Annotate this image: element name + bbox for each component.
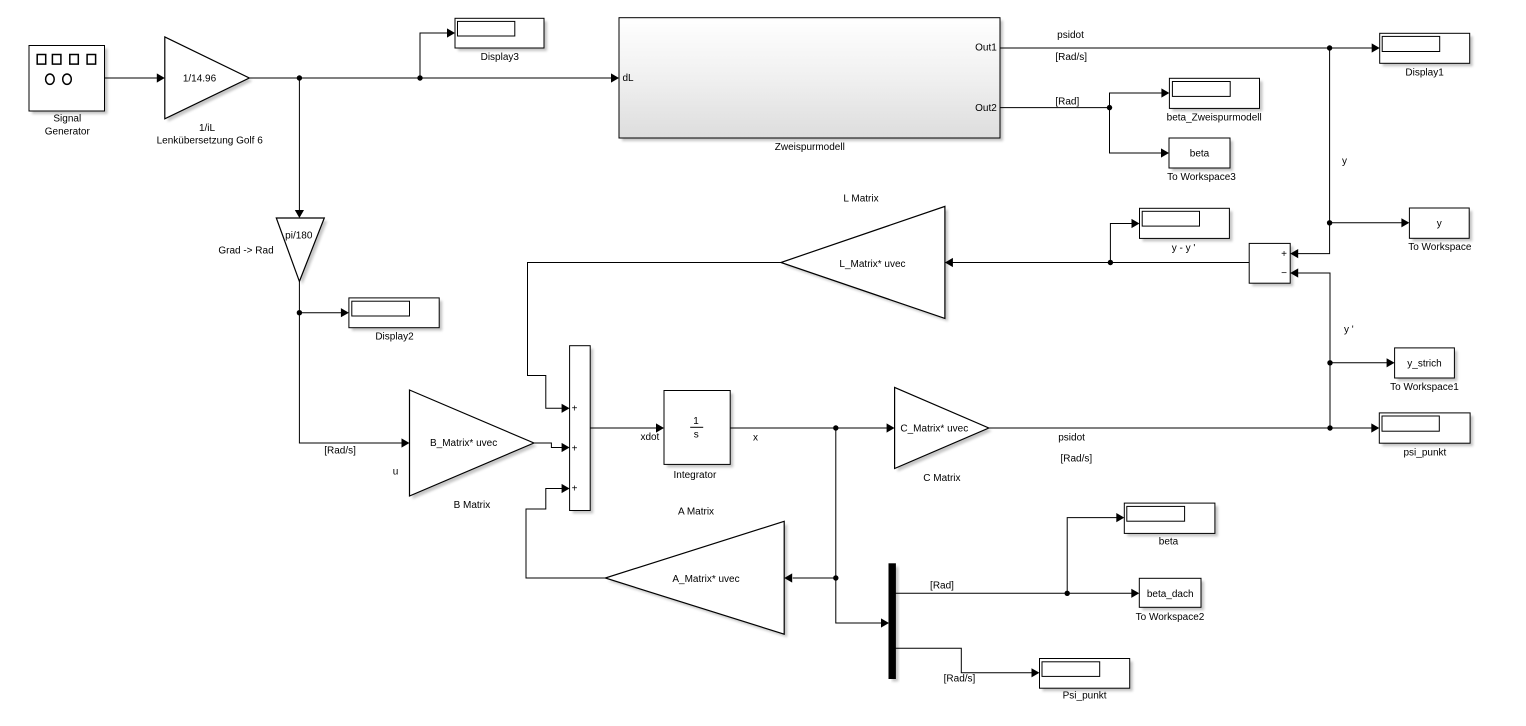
wire pi/180 down to B Matrix input: [299, 281, 409, 447]
gain C Matrix (C_Matrix* uvec): [895, 387, 992, 484]
svg-text:Display3: Display3: [481, 52, 520, 63]
svg-text:psidot: psidot: [1058, 433, 1085, 444]
gain A Matrix (A_Matrix* uvec): [605, 507, 787, 638]
sum block (xdot = Ax + Bu + L(y-y')): [570, 346, 594, 514]
svg-text:To Workspace3: To Workspace3: [1167, 172, 1236, 183]
svg-text:pi/180: pi/180: [285, 231, 313, 242]
svg-text:beta_dach: beta_dach: [1147, 589, 1194, 600]
sink block To Workspace2 (beta_dach): [1136, 578, 1205, 623]
svg-text:Zweispurmodell: Zweispurmodell: [775, 142, 845, 153]
svg-text:C_Matrix* uvec: C_Matrix* uvec: [900, 423, 968, 434]
svg-text:[Rad]: [Rad]: [930, 581, 954, 592]
svg-text:[Rad/s]: [Rad/s]: [1060, 454, 1092, 465]
display block y - y': [1140, 208, 1233, 254]
svg-text:dL: dL: [623, 73, 635, 84]
svg-text:[Rad/s]: [Rad/s]: [1055, 52, 1087, 63]
sink block To Workspace1 (y_strich): [1390, 348, 1459, 393]
svg-text:beta: beta: [1159, 537, 1179, 548]
svg-text:Display2: Display2: [375, 332, 414, 343]
wire L Matrix output to sum input 1: [528, 263, 781, 413]
junction at y-y' display branch: [1108, 260, 1113, 265]
wire Integrator x output to C Matrix: [730, 423, 894, 432]
svg-text:Out2: Out2: [975, 103, 997, 114]
display block Display3: [455, 18, 547, 63]
subsystem block Zweispurmodell: [619, 18, 1003, 153]
svg-text:To Workspace2: To Workspace2: [1136, 612, 1205, 623]
svg-text:1: 1: [693, 416, 699, 427]
sum block (y minus y-strich): [1249, 243, 1293, 286]
svg-text:C Matrix: C Matrix: [923, 473, 960, 484]
label [Rad/s] (C Matrix output): [1060, 454, 1092, 465]
svg-text:L_Matrix* uvec: L_Matrix* uvec: [839, 259, 905, 270]
gain B Matrix (B_Matrix* uvec): [410, 390, 537, 511]
integrator block 1/s: [664, 391, 733, 481]
svg-text:psidot: psidot: [1057, 30, 1084, 41]
svg-text:To Workspace1: To Workspace1: [1390, 382, 1459, 393]
gain L Matrix (L_Matrix* uvec): [781, 194, 948, 322]
label [Rad] (demux output 1): [930, 581, 954, 592]
junction (branch to Display2): [297, 310, 302, 315]
svg-text:Out1: Out1: [975, 43, 997, 54]
svg-text:A Matrix: A Matrix: [678, 507, 714, 518]
svg-text:+: +: [572, 444, 578, 455]
label u (B Matrix input): [393, 467, 399, 478]
svg-text:B Matrix: B Matrix: [454, 500, 491, 511]
junction on y' wire at To Workspace1 branch: [1327, 360, 1332, 365]
svg-text:beta_Zweispurmodell: beta_Zweispurmodell: [1167, 113, 1262, 124]
svg-text:y ': y ': [1344, 325, 1354, 336]
junction at beta display branch: [1065, 591, 1070, 596]
svg-text:xdot: xdot: [640, 432, 659, 443]
display block beta: [1124, 503, 1218, 547]
svg-text:[Rad/s]: [Rad/s]: [324, 446, 356, 457]
source block Signal Generator: [29, 46, 108, 138]
wire A Matrix feedback to sum input 3: [526, 484, 605, 578]
svg-text:L Matrix: L Matrix: [843, 194, 878, 205]
display block Display2: [349, 298, 442, 343]
wire C Matrix psidot output to psi_punkt display: [989, 423, 1380, 432]
svg-text:Integrator: Integrator: [673, 470, 716, 481]
demux block: [889, 564, 898, 682]
svg-text:Psi_punkt: Psi_punkt: [1063, 691, 1107, 702]
label [Rad/s] (demux output 2): [944, 674, 976, 685]
gain pi/180 (Grad -> Rad): [218, 218, 327, 284]
label [Rad] (Out2 wire): [1055, 97, 1079, 108]
svg-text:s: s: [694, 429, 699, 440]
svg-text:y - y ': y - y ': [1172, 243, 1196, 254]
sink block To Workspace3 (beta): [1167, 138, 1236, 183]
junction on psidot wire (branch down y): [1327, 45, 1332, 50]
svg-text:1/14.96: 1/14.96: [183, 73, 217, 84]
svg-text:psi_punkt: psi_punkt: [1403, 448, 1446, 459]
wire branch to Display2: [299, 308, 349, 317]
junction on psidot wire at y' branch: [1327, 425, 1332, 430]
wire Zweispurmodell Out2 to beta displays: [1000, 88, 1169, 157]
label [Rad/s] (B Matrix input): [324, 446, 356, 457]
wire Zweispurmodell Out1 (psidot) to Display1: [1000, 43, 1380, 52]
junction on x wire (branch down): [833, 425, 838, 430]
svg-text:+: +: [572, 484, 578, 495]
wire B Matrix to sum input 2: [534, 443, 570, 452]
display block psi_punkt: [1379, 413, 1473, 459]
wire gain 1/14.96 to Zweispurmodell dL: [249, 73, 619, 82]
display block Display1: [1380, 33, 1473, 78]
sink block To Workspace (y): [1408, 208, 1472, 253]
svg-text:A_Matrix* uvec: A_Matrix* uvec: [672, 574, 739, 585]
wire demux output 2 [Rad/s] to Psi_punkt display: [895, 648, 1039, 677]
svg-text:y_strich: y_strich: [1407, 358, 1441, 369]
wire demux output 1 [Rad] to beta_dach: [895, 513, 1139, 598]
label x (Integrator output): [753, 433, 758, 444]
svg-text:Grad -> Rad: Grad -> Rad: [218, 245, 273, 256]
label psidot (C Matrix output): [1058, 433, 1085, 444]
svg-text:y: y: [1342, 156, 1347, 167]
wire sum output xdot to Integrator: [590, 423, 664, 432]
svg-text:u: u: [393, 467, 399, 478]
svg-text:beta: beta: [1190, 149, 1210, 160]
svg-text:+: +: [572, 404, 578, 415]
junction on dL wire (branch to pi/180): [297, 75, 302, 80]
svg-text:To Workspace: To Workspace: [1408, 242, 1472, 253]
display block Psi_punkt: [1040, 659, 1133, 702]
svg-text:Display1: Display1: [1405, 68, 1444, 79]
wire y branch down to To Workspace and sum +: [1290, 48, 1409, 258]
wire branch up to Display3: [420, 28, 455, 78]
svg-text:[Rad/s]: [Rad/s]: [944, 674, 976, 685]
label y (vertical wire): [1342, 156, 1347, 167]
junction on y wire at To Workspace branch: [1327, 220, 1332, 225]
svg-text:−: −: [1281, 268, 1287, 279]
wire x branch down to A Matrix and demux: [784, 428, 889, 628]
label y' (vertical wire): [1344, 325, 1354, 336]
label [Rad/s] (Out1 wire): [1055, 52, 1087, 63]
svg-text:Generator: Generator: [45, 127, 91, 138]
junction on Out2 wire: [1107, 105, 1112, 110]
svg-text:+: +: [1281, 249, 1287, 260]
wire branch down to gain pi/180: [295, 78, 304, 218]
label xdot (Integrator input): [640, 432, 659, 443]
junction at A Matrix branch: [833, 575, 838, 580]
gain 1/14.96 (1/iL Lenkübersetzung Golf 6): [157, 37, 264, 147]
wire Signal Generator to gain 1/14.96: [105, 73, 165, 82]
wire y' up to sum minus input and To Workspace1: [1290, 268, 1394, 428]
label psidot (Out1 wire): [1057, 30, 1084, 41]
svg-text:y: y: [1437, 219, 1442, 230]
junction on dL wire (branch to Display3): [417, 75, 422, 80]
svg-text:1/iL: 1/iL: [199, 123, 216, 134]
svg-text:Signal: Signal: [53, 114, 81, 125]
display block beta_Zweispurmodell: [1167, 78, 1263, 123]
svg-text:x: x: [753, 433, 758, 444]
svg-text:B_Matrix* uvec: B_Matrix* uvec: [430, 438, 497, 449]
wire sum block output to L Matrix and y-y' display: [945, 219, 1249, 267]
svg-text:[Rad]: [Rad]: [1055, 97, 1079, 108]
svg-text:Lenkübersetzung Golf 6: Lenkübersetzung Golf 6: [157, 136, 264, 147]
